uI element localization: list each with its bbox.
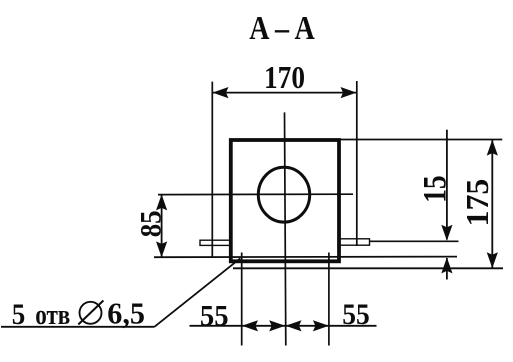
svg-text:55: 55 (342, 298, 370, 331)
svg-text:55: 55 (200, 300, 229, 333)
svg-text:85: 85 (134, 210, 167, 237)
top extension line right of box (341, 139, 503, 141)
hole circle (258, 167, 309, 222)
svg-text:170: 170 (264, 60, 305, 95)
diameter symbol slash (78, 301, 103, 325)
bottom line (233, 267, 503, 269)
box outline (square tube section) (231, 140, 339, 261)
plate top line (154, 256, 457, 259)
55 right arrow (313, 320, 329, 331)
tab axis line to 15 dimension (370, 240, 459, 242)
dimension 170 right arrow (341, 87, 357, 98)
55 left arrow (242, 320, 258, 331)
55 center left-pointing arrow (286, 320, 302, 331)
svg-text:5: 5 (12, 298, 26, 331)
dimension 170 line (213, 92, 356, 94)
vertical centerline (285, 112, 286, 345)
svg-text:15: 15 (418, 175, 454, 203)
dimension 15 up arrow with tail (446, 258, 448, 280)
diameter symbol circle (80, 302, 102, 324)
left tab (200, 240, 231, 245)
extension line left of 170 (211, 82, 213, 257)
svg-text:6,5: 6,5 (107, 296, 145, 331)
dimension 175 line (491, 140, 493, 268)
leader shelf line (1, 326, 154, 328)
svg-text:отв: отв (35, 300, 70, 331)
right tab (339, 239, 370, 245)
extension line bottom left hole axis (241, 253, 243, 346)
extension line right of 170 (356, 81, 358, 246)
dimension 15 down arrow (441, 225, 452, 241)
dimension 175 down arrow (487, 252, 498, 268)
extension line bottom right hole axis (328, 253, 330, 346)
dimension 170 left arrow (213, 87, 229, 98)
dimension 175 up arrow (487, 140, 498, 156)
dimension 15 line (446, 130, 448, 240)
55 center right-pointing arrow (269, 320, 285, 331)
svg-text:A – A: A – A (249, 10, 314, 47)
horizontal centerline (158, 193, 353, 195)
dimension 85 bottom arrow (156, 241, 167, 257)
dimension 85 line (161, 195, 163, 258)
svg-text:175: 175 (459, 179, 495, 227)
dimension 85 top arrow (156, 194, 167, 210)
leader diagonal line (154, 258, 240, 327)
dimension 55-55 line (190, 325, 377, 327)
